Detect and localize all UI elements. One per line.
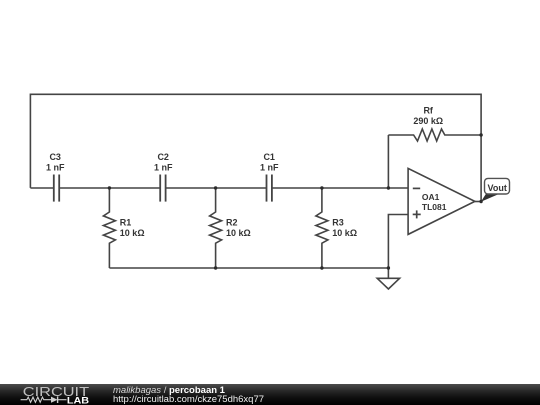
svg-text:R1: R1 (120, 218, 132, 228)
wire C3 to C2 (59, 187, 160, 189)
svg-text:R3: R3 (332, 218, 344, 228)
wire C2 to C1 (166, 187, 267, 189)
node R3 bottom (320, 266, 323, 269)
capacitor C2 (160, 175, 165, 202)
capacitor C3 (54, 175, 59, 202)
capacitor C1 (267, 175, 272, 202)
svg-text:OA1: OA1 (422, 192, 440, 202)
resistor R3 (316, 188, 328, 268)
ground (377, 268, 399, 289)
node B junction C2/C1/R2 (214, 186, 217, 189)
op-amp output stub (475, 201, 481, 203)
resistor Rf (388, 129, 481, 141)
op-amp minus symbol (413, 187, 420, 189)
svg-text:C3: C3 (49, 152, 61, 162)
svg-text:LAB: LAB (67, 395, 90, 405)
wire bottom rail (109, 267, 388, 269)
wire feedback vertical (387, 135, 389, 188)
node Rf right (479, 133, 482, 136)
wire C1 to op-amp (272, 187, 408, 189)
svg-text:R2: R2 (226, 218, 238, 228)
Vout flag (481, 178, 510, 201)
node R2 bottom (214, 266, 217, 269)
footer bar (0, 384, 540, 405)
svg-text:10 kΩ: 10 kΩ (120, 228, 145, 238)
op-amp plus symbol (413, 210, 421, 218)
svg-text:290 kΩ: 290 kΩ (413, 116, 443, 126)
svg-text:TL081: TL081 (422, 202, 447, 212)
svg-text:10 kΩ: 10 kΩ (226, 228, 251, 238)
node A junction C3/C2/R1 (108, 186, 111, 189)
wire main left segment (30, 187, 53, 189)
svg-text:C2: C2 (157, 152, 169, 162)
svg-text:1 nF: 1 nF (154, 162, 173, 172)
CircuitLab logo (15, 384, 115, 405)
svg-text:Vout: Vout (488, 183, 507, 193)
resistor R2 (210, 188, 222, 268)
wire non-inverting input (388, 215, 408, 269)
node C junction C1/R3 (320, 186, 323, 189)
svg-text:C1: C1 (263, 152, 275, 162)
resistor R1 (103, 188, 115, 268)
svg-text:1 nF: 1 nF (260, 162, 279, 172)
node inverting input (387, 186, 390, 189)
svg-text:Rf: Rf (423, 106, 433, 116)
credit line (113, 386, 225, 395)
wire top rail (30, 94, 481, 201)
svg-text:10 kΩ: 10 kΩ (332, 228, 357, 238)
op-amp OA1 (408, 168, 475, 234)
url line (113, 395, 264, 404)
node ground (387, 266, 390, 269)
svg-text:1 nF: 1 nF (46, 162, 65, 172)
node output (479, 200, 482, 203)
